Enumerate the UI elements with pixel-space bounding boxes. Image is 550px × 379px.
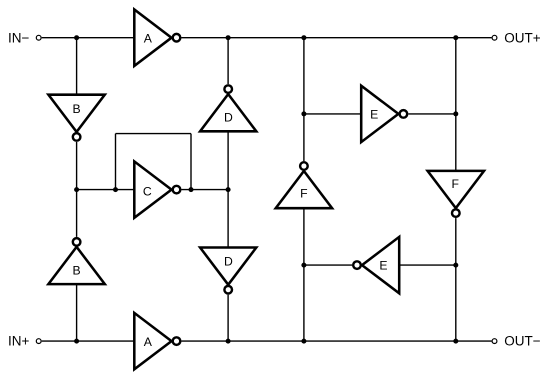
node: bottom wire / left rail junction: [74, 339, 79, 344]
wire D rail: top wire down to D1 output bubble: [227, 38, 229, 84]
wire E1 row: E1 output bubble to F-right rail: [408, 113, 455, 115]
inverter B2 (lower left, pointing up): [48, 238, 104, 284]
node: top wire / F-left rail junction: [301, 35, 306, 40]
wire left rail: B2 input down to bottom wire: [76, 284, 78, 341]
node: middle row / left rail junction: [74, 187, 79, 192]
wire C feedback right vertical: [190, 134, 192, 190]
svg-text:A: A: [144, 335, 153, 349]
inverter B1 (upper left, pointing down): [48, 95, 104, 141]
svg-text:OUT+: OUT+: [504, 30, 540, 45]
inverter E1 (upper right, pointing right): [361, 86, 407, 142]
node: E2 row / F-left rail junction: [301, 263, 306, 268]
svg-text:F: F: [451, 177, 458, 191]
wire top row: IN- terminal to inverter A input: [42, 37, 135, 39]
node: E2 row / F-right rail junction: [453, 263, 458, 268]
wire D rail: middle row down to D2 input: [227, 190, 229, 248]
wire left rail: top wire down to B1 input: [76, 38, 78, 95]
inverter F2 (right, pointing down): [428, 171, 484, 217]
node: bottom wire / D rail junction: [226, 339, 231, 344]
svg-text:IN+: IN+: [8, 334, 30, 349]
svg-text:IN−: IN−: [8, 30, 30, 45]
wire bottom row: inverter A2 output to OUT- terminal: [182, 340, 492, 342]
wire C feedback left vertical: [115, 134, 117, 190]
svg-text:C: C: [143, 185, 152, 199]
wire F-right rail: top wire down to F2 input: [455, 38, 457, 171]
svg-text:D: D: [224, 111, 233, 125]
wire D rail: D1 input down to middle row: [227, 131, 229, 189]
wire middle row: inverter C output to D rail: [182, 189, 229, 191]
inverter F1 (left, pointing up): [276, 162, 332, 208]
wire E2 row: F-left rail to E2 output bubble: [304, 264, 352, 266]
node: top wire / D rail junction: [226, 35, 231, 40]
node: middle row / feedback left junction: [113, 187, 118, 192]
svg-text:E: E: [379, 259, 387, 273]
wire F-left rail: F1 input down to bottom wire: [303, 208, 305, 341]
inverter D2 (lower, pointing down): [200, 248, 256, 294]
node: bottom wire / F-right rail junction: [453, 339, 458, 344]
node: top wire / F-right rail junction: [453, 35, 458, 40]
terminal IN+: [8, 334, 41, 349]
svg-text:E: E: [370, 107, 378, 121]
wire D rail: D2 output bubble down to bottom wire: [227, 295, 229, 341]
wire middle row: left rail to inverter C input: [77, 189, 135, 191]
inverter E2 (lower right, pointing left): [353, 237, 399, 293]
wire C feedback top horizontal: [116, 133, 192, 135]
inverter D1 (upper, pointing up): [200, 85, 256, 131]
terminal IN-: [8, 30, 41, 45]
wire E1 row: F-left rail to E1 input: [304, 113, 361, 115]
svg-text:A: A: [144, 32, 153, 46]
svg-text:D: D: [224, 254, 233, 268]
terminal OUT-: [492, 334, 541, 349]
terminal OUT+: [492, 30, 541, 45]
wire F-right rail: F2 output bubble down to bottom wire: [455, 218, 457, 341]
node: E1 row / F-left rail junction: [301, 111, 306, 116]
node: middle row / D rail junction: [226, 187, 231, 192]
inverter A2 (bottom): [134, 313, 180, 369]
svg-text:B: B: [73, 102, 81, 116]
wire E2 row: E2 input to F-right rail: [399, 264, 456, 266]
node: bottom wire / F-left rail junction: [301, 339, 306, 344]
wire F-left rail: top wire down to F1 output bubble: [303, 38, 305, 161]
node: middle row / feedback right junction: [189, 187, 194, 192]
wire top row: inverter A output to OUT+ terminal: [182, 37, 492, 39]
svg-text:OUT−: OUT−: [504, 334, 540, 349]
node: top wire / left rail junction: [74, 35, 79, 40]
svg-text:F: F: [300, 186, 307, 200]
node: E1 row / F-right rail junction: [453, 111, 458, 116]
wire left rail: B1 output bubble down to B2 output bubble: [76, 142, 78, 237]
wire bottom row: IN+ terminal to inverter A2 input: [42, 340, 135, 342]
inverter C (middle, with feedback): [134, 161, 180, 217]
svg-text:B: B: [73, 263, 81, 277]
inverter A (top): [134, 10, 180, 66]
